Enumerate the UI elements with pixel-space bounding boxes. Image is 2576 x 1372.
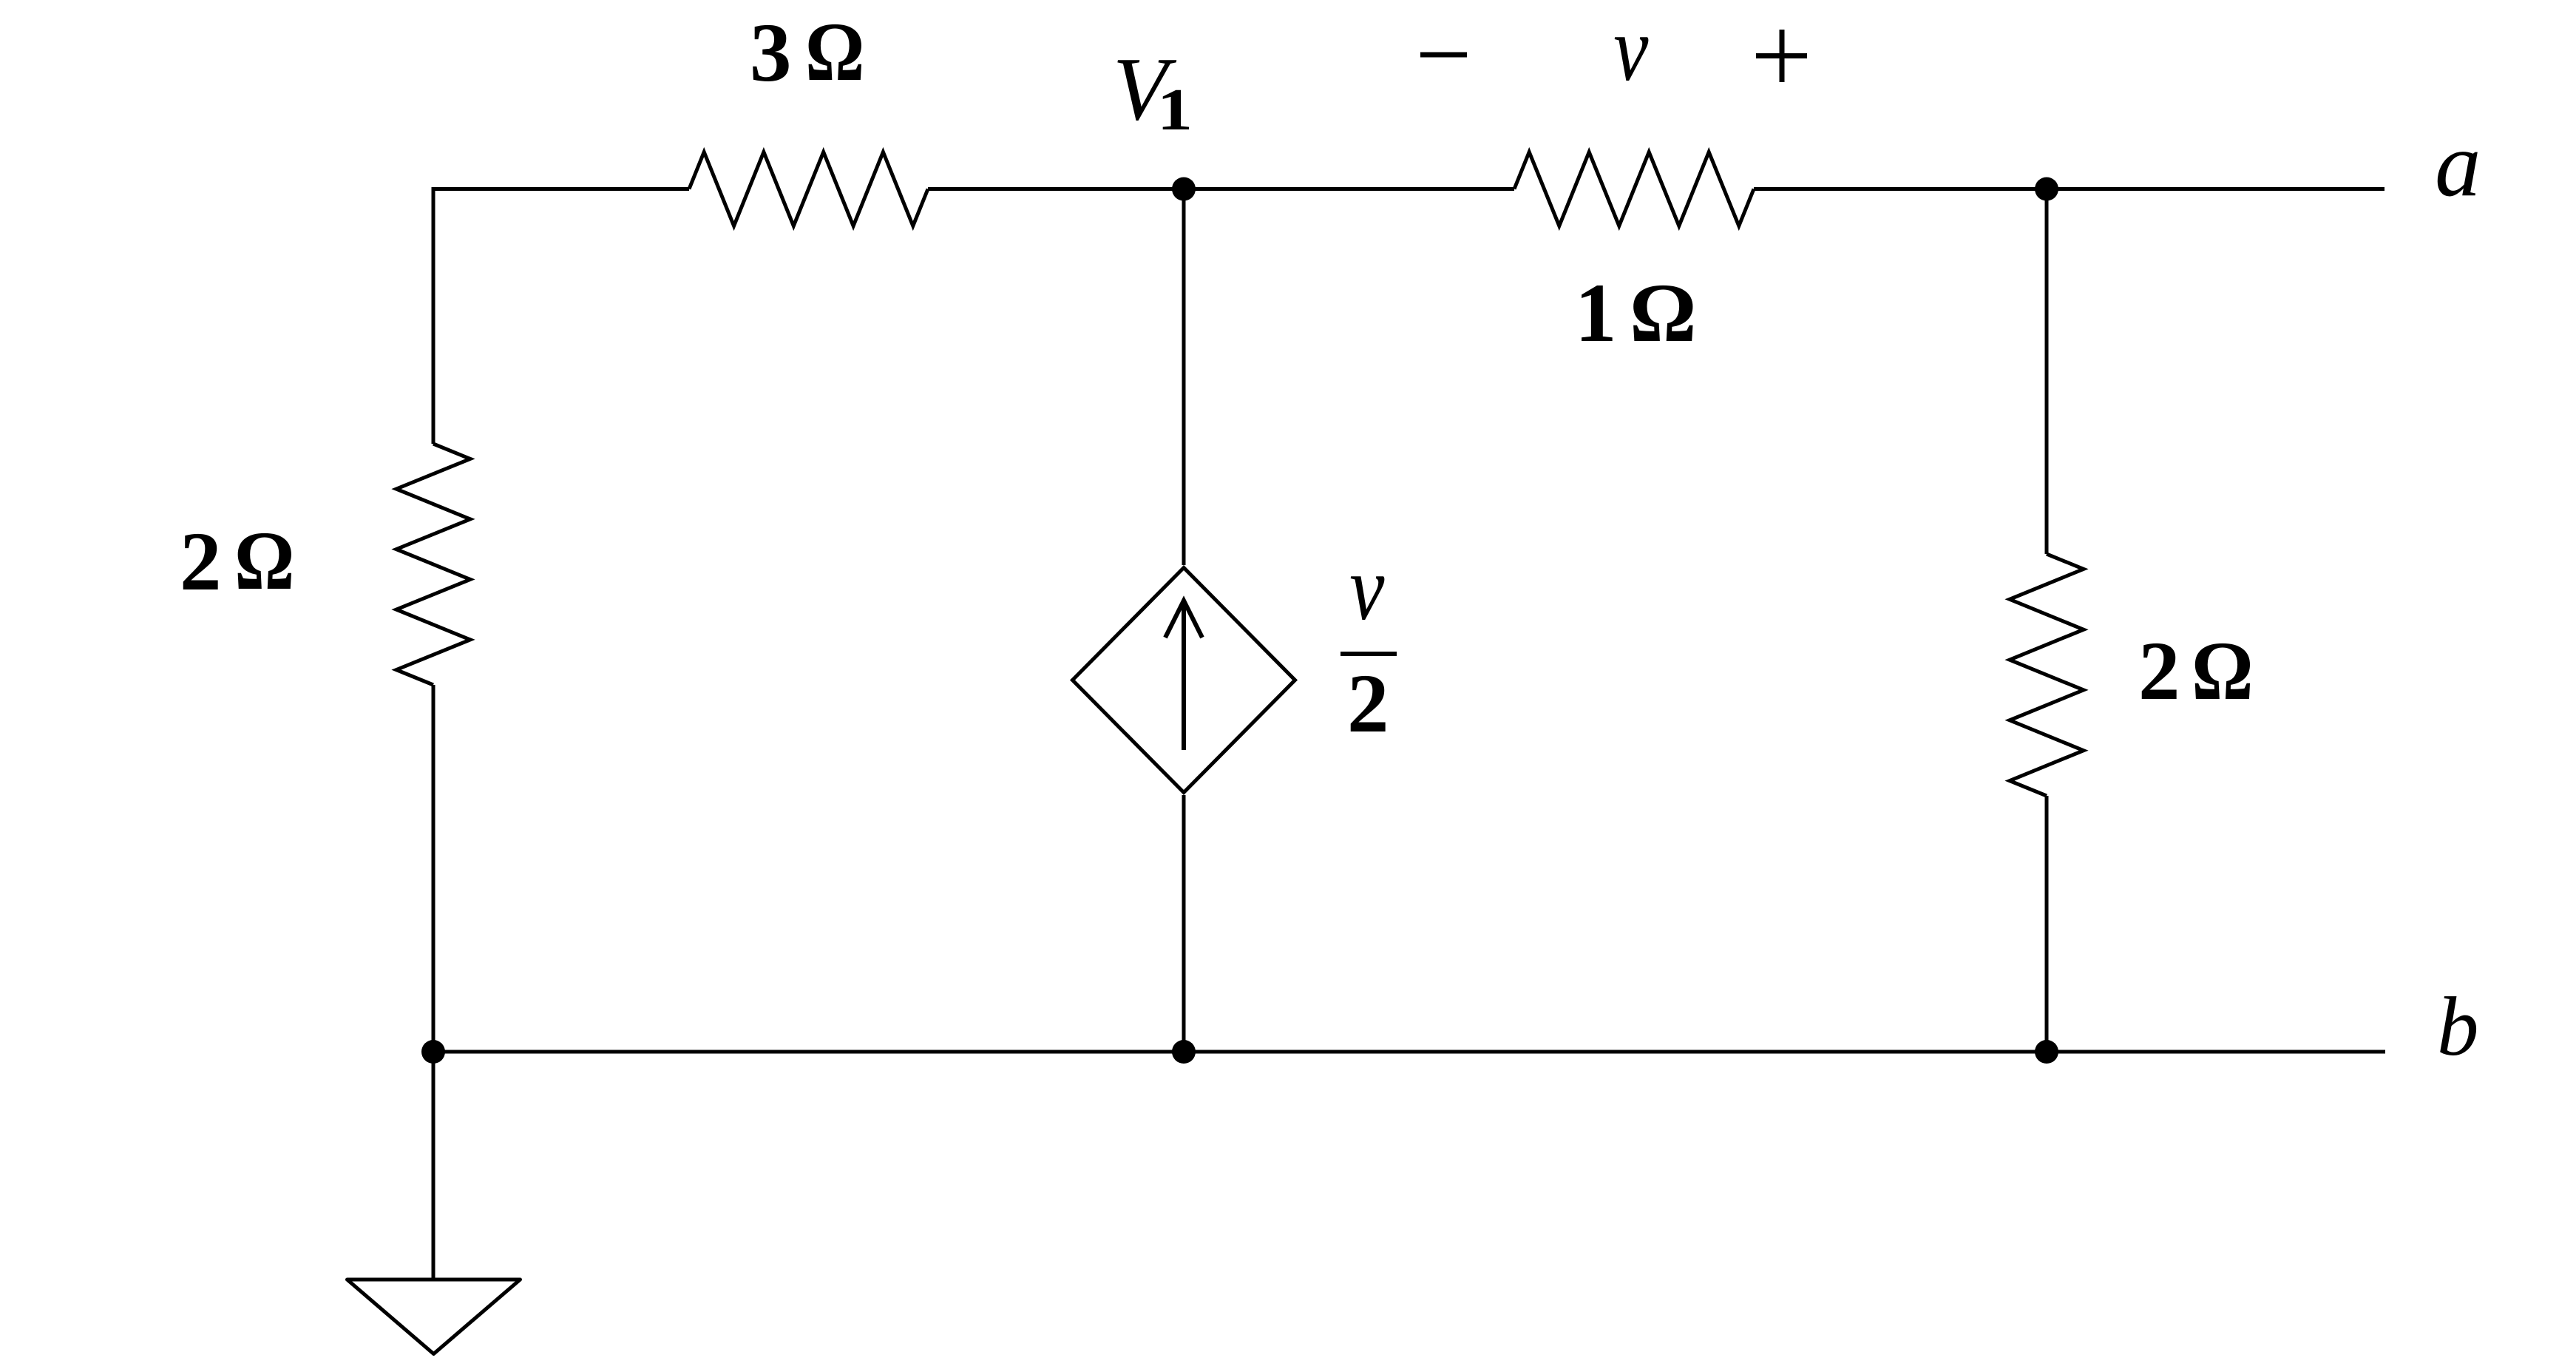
wire top middle (3ohm to 1ohm across node V1) xyxy=(928,187,1514,191)
svg-text:Ω: Ω xyxy=(2192,624,2254,717)
svg-text:v: v xyxy=(1349,538,1385,640)
label 3 ohm xyxy=(750,7,864,99)
svg-text:Ω: Ω xyxy=(1630,267,1697,359)
label 2 ohm left xyxy=(180,515,294,608)
label node V1 xyxy=(1113,39,1193,143)
svg-text:v: v xyxy=(1613,0,1649,101)
label plus sign xyxy=(1756,30,1807,82)
node bottom right junction dot xyxy=(2035,1040,2058,1064)
svg-text:3: 3 xyxy=(750,7,792,99)
wire left column lower (2ohm to bottom node) xyxy=(432,685,435,1052)
resistor R 2ohm (right, vertical) xyxy=(2010,554,2084,796)
svg-text:1: 1 xyxy=(1575,267,1617,359)
wire V1 column lower xyxy=(1182,795,1186,1052)
ground symbol xyxy=(348,1280,521,1354)
resistor R 1ohm (top right, horizontal) xyxy=(1514,152,1754,226)
resistor R 2ohm (left, vertical) xyxy=(396,444,470,685)
svg-text:1: 1 xyxy=(1157,77,1193,143)
wire ground stub xyxy=(432,1052,435,1278)
current source arrow xyxy=(1165,601,1202,750)
node bottom middle junction dot xyxy=(1172,1040,1196,1064)
wire right column upper xyxy=(2045,189,2049,555)
svg-text:2: 2 xyxy=(180,516,222,608)
wire top-left segment xyxy=(433,189,689,445)
svg-text:Ω: Ω xyxy=(805,7,864,99)
svg-text:b: b xyxy=(2437,981,2479,1073)
label minus sign xyxy=(1420,53,1467,58)
wire top right to terminal a xyxy=(1754,187,2385,191)
dependent current source diamond xyxy=(1073,568,1295,793)
svg-text:2: 2 xyxy=(1347,658,1389,750)
svg-text:Ω: Ω xyxy=(234,515,294,607)
node a-column junction dot top right xyxy=(2035,178,2058,201)
wire bottom rail xyxy=(433,1050,2385,1054)
node V1 junction dot xyxy=(1172,178,1196,201)
wire V1 column upper xyxy=(1182,189,1186,566)
label 2 ohm right xyxy=(2138,624,2254,717)
resistor R 3ohm (top left, horizontal) xyxy=(689,152,928,226)
node bottom left junction dot xyxy=(421,1040,445,1064)
wire right column lower xyxy=(2045,796,2049,1052)
svg-text:a: a xyxy=(2435,114,2481,216)
svg-text:2: 2 xyxy=(2138,625,2180,717)
label 1 ohm xyxy=(1575,267,1697,359)
